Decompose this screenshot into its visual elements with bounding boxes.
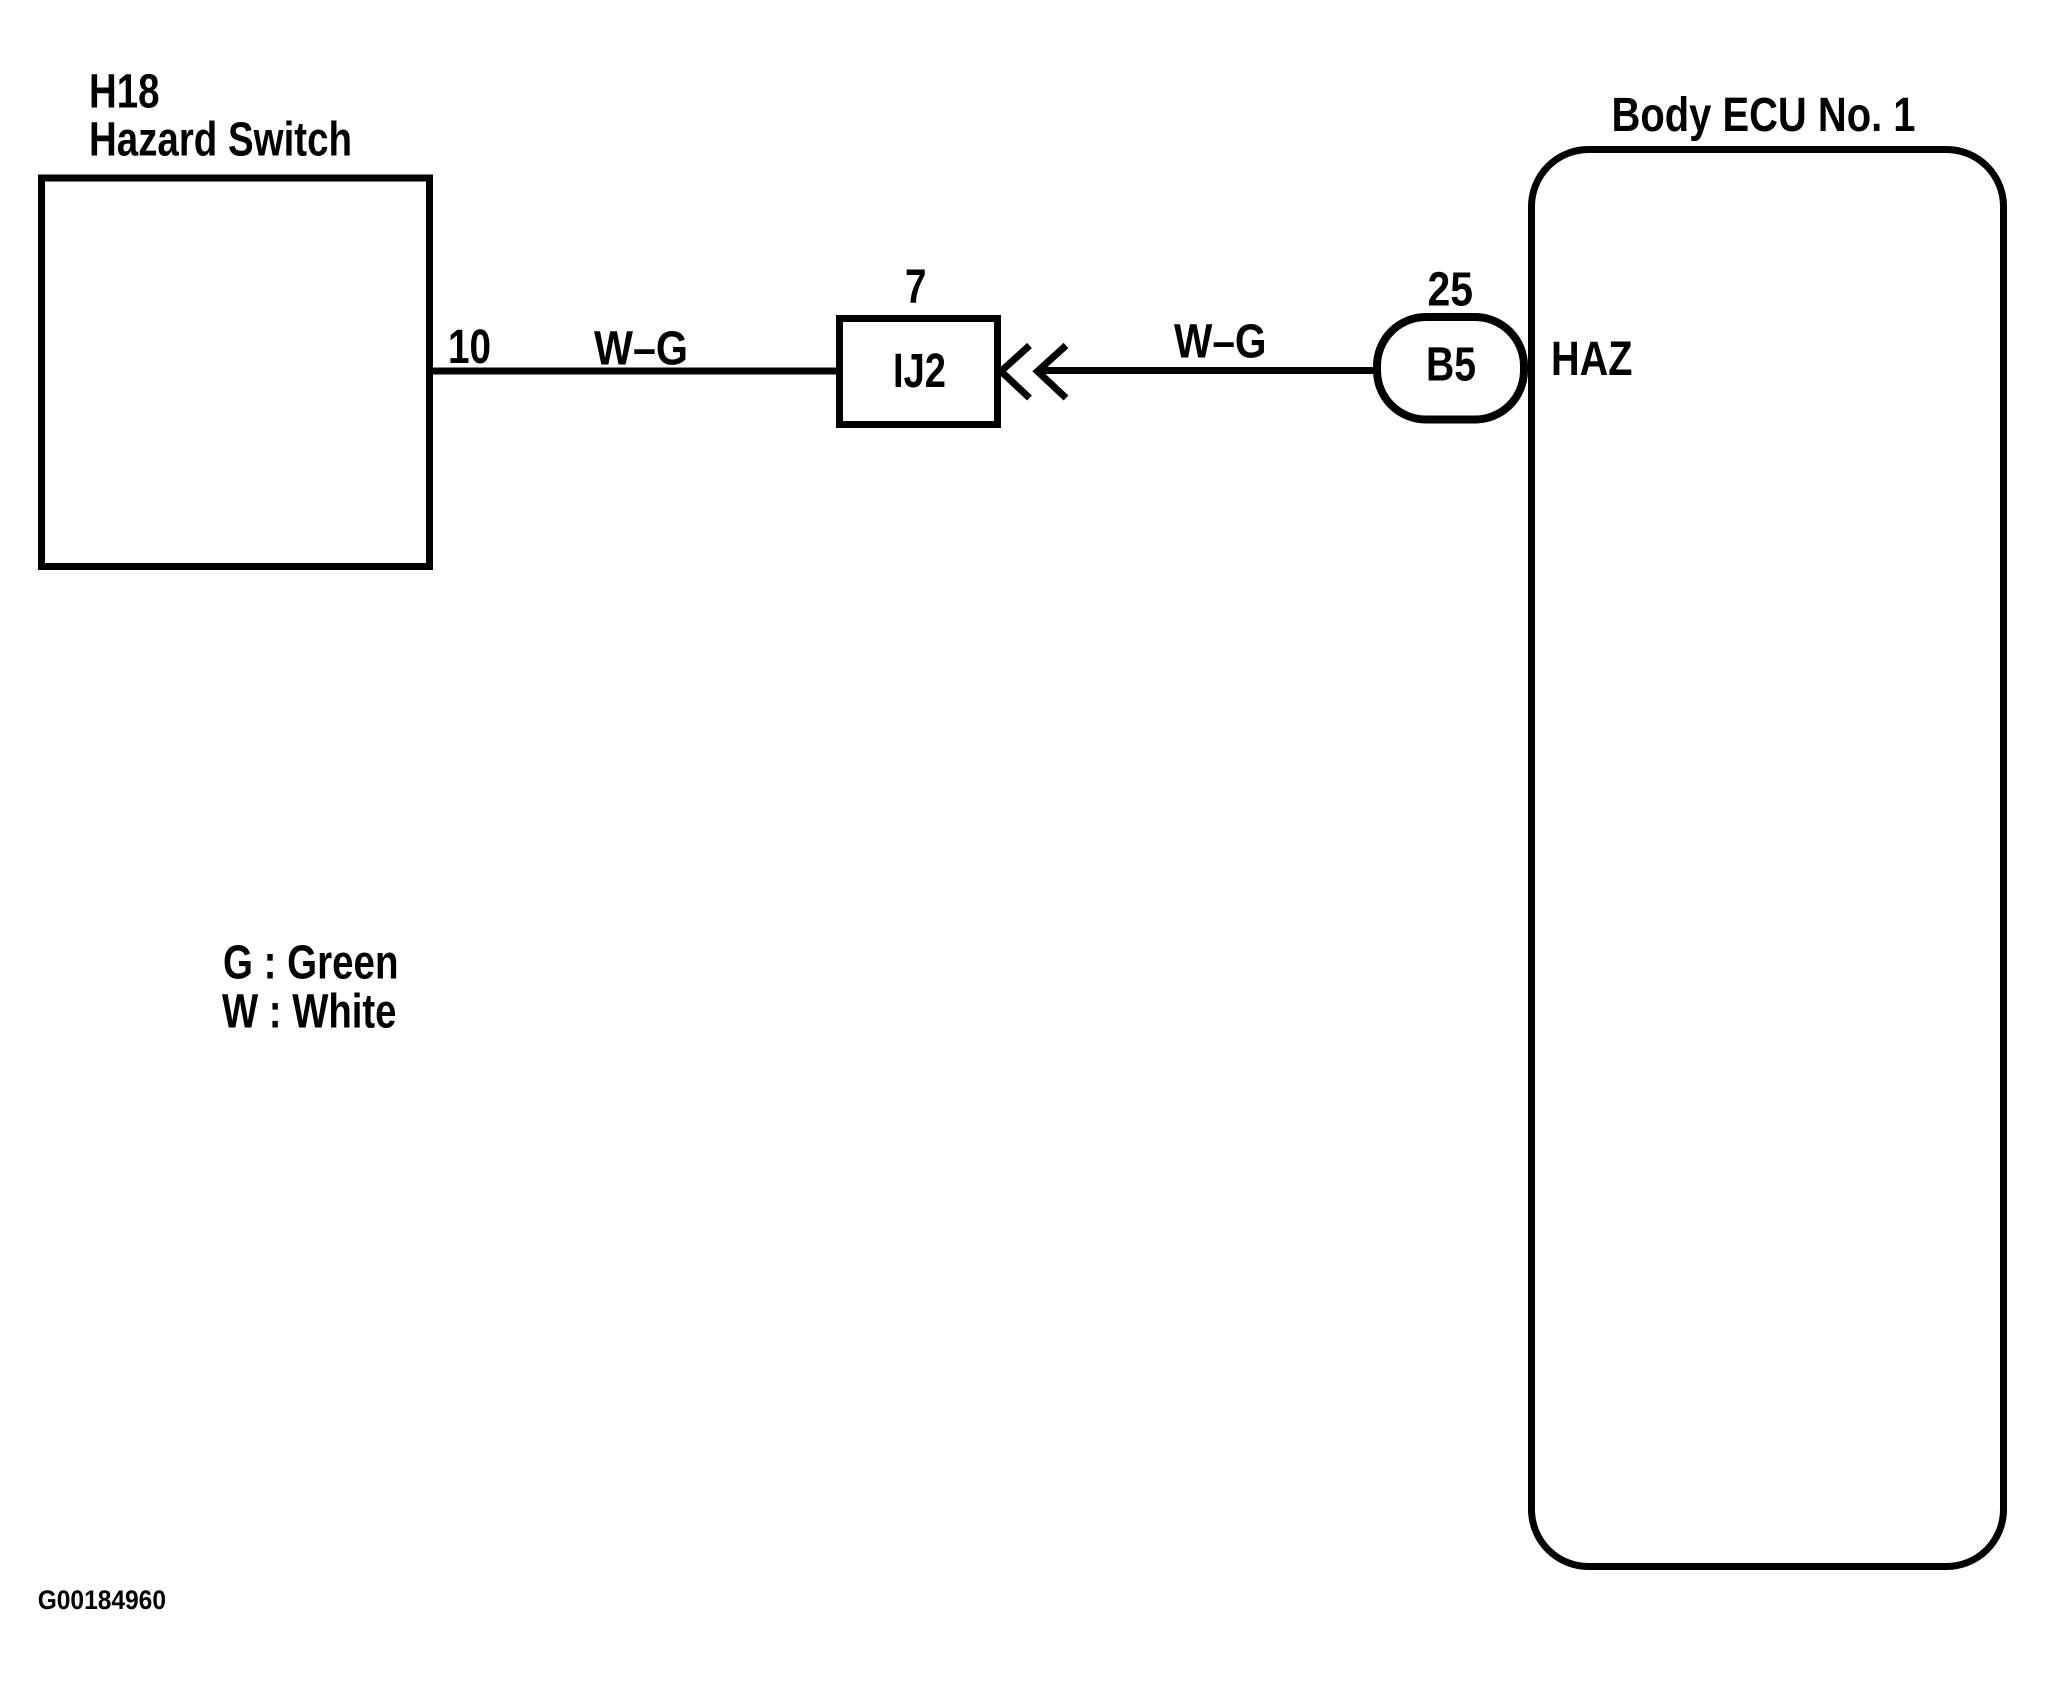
- legend G : Green: [223, 937, 399, 990]
- connector H18 hazard switch box: [42, 178, 430, 567]
- svg-text:B5: B5: [1426, 339, 1476, 392]
- svg-text:H18: H18: [89, 66, 160, 119]
- svg-text:W : White: W : White: [222, 986, 397, 1039]
- label Hazard Switch: [89, 114, 352, 167]
- svg-text:IJ2: IJ2: [893, 345, 946, 398]
- wire W-G from B5 to IJ2 arrow: [1037, 367, 1377, 374]
- label H18: [89, 66, 160, 119]
- net label HAZ: [1551, 333, 1633, 386]
- svg-text:W–G: W–G: [1174, 316, 1267, 369]
- pin 7 label: [905, 261, 927, 314]
- label B5: [1426, 339, 1476, 392]
- legend W : White: [222, 986, 397, 1039]
- svg-text:Body ECU No. 1: Body ECU No. 1: [1612, 89, 1916, 142]
- svg-text:10: 10: [448, 321, 491, 374]
- svg-text:G : Green: G : Green: [223, 937, 399, 990]
- wire label W-G (right segment): [1174, 316, 1267, 369]
- svg-text:W–G: W–G: [594, 323, 688, 376]
- junction connector IJ2 box: [840, 319, 998, 425]
- wire W-G from H18 pin 10 to IJ2: [430, 368, 841, 375]
- label Body ECU No. 1: [1612, 89, 1916, 142]
- svg-text:7: 7: [905, 261, 927, 314]
- pin 25 label: [1428, 264, 1474, 317]
- svg-text:HAZ: HAZ: [1551, 333, 1633, 386]
- svg-text:25: 25: [1428, 264, 1474, 317]
- svg-text:Hazard Switch: Hazard Switch: [89, 114, 352, 167]
- connector B5 oval: [1377, 317, 1524, 420]
- svg-text:G00184960: G00184960: [38, 1585, 166, 1615]
- pin 10 label: [448, 321, 491, 374]
- ECU Body ECU No. 1 box: [1532, 150, 2004, 1567]
- label IJ2: [893, 345, 946, 398]
- arrow chevron 1 at IJ2: [1001, 346, 1030, 399]
- arrow chevron 2 at IJ2: [1038, 346, 1067, 399]
- figure id G00184960: [38, 1585, 166, 1615]
- wire label W-G (left segment): [594, 323, 688, 376]
